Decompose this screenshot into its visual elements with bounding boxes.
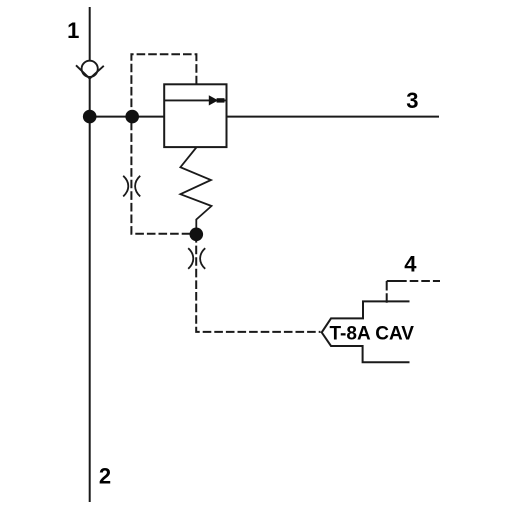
svg-text:3: 3 [406,88,418,113]
svg-text:T-8A CAV: T-8A CAV [330,324,415,345]
svg-text:2: 2 [99,463,111,488]
svg-text:4: 4 [404,251,417,276]
svg-text:1: 1 [67,18,79,43]
